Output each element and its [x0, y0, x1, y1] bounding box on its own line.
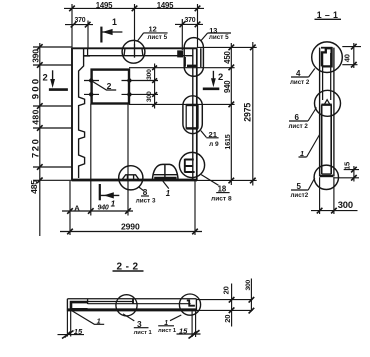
- dim 15: lines, ticks: [333, 166, 359, 182]
- underline 3: [134, 327, 149, 329]
- embedded plate inside stadium 21: [186, 104, 198, 106]
- right end extension lines: [196, 300, 252, 311]
- svg-text:1: 1: [97, 317, 101, 326]
- underline 8: [141, 195, 149, 197]
- leader for opening label 2: [93, 82, 117, 91]
- top dim extension lines: [72, 4, 198, 48]
- svg-text:12: 12: [149, 25, 157, 34]
- svg-text:лист 3: лист 3: [136, 198, 156, 205]
- extension line opening bottom to right dims: [129, 103, 235, 105]
- svg-text:лист 2: лист 2: [290, 79, 310, 86]
- svg-text:лист 8: лист 8: [211, 195, 232, 202]
- svg-text:370: 370: [75, 17, 86, 24]
- section 1-1 body inner walls lower: [322, 105, 332, 174]
- panel outline: bottom edge: [72, 179, 198, 182]
- svg-text:900: 900: [30, 77, 41, 100]
- leader 1: [299, 135, 320, 158]
- right extension lines top and bottom: [197, 47, 257, 180]
- callout stadium 21 mid right edge: [183, 96, 202, 134]
- svg-text:1: 1: [300, 149, 304, 158]
- ticks A/940: [67, 208, 131, 214]
- svg-text:л 9: л 9: [209, 141, 219, 148]
- extension 370 left: [87, 21, 89, 49]
- right outer dim line 2975: [252, 42, 254, 186]
- section 2-2 inner line lower: [88, 303, 191, 305]
- svg-text:1 – 1: 1 – 1: [317, 10, 339, 20]
- dim 300 right line and ticks: [250, 279, 252, 312]
- panel outline: right edge outer: [196, 48, 198, 180]
- svg-text:40: 40: [343, 54, 352, 62]
- right dim line 450/940/1615: [230, 43, 232, 185]
- section 2-2 left channel detail: [71, 302, 88, 309]
- trapezoid detail inside circle 8: [122, 175, 139, 180]
- svg-text:лист 2: лист 2: [289, 123, 309, 130]
- svg-text:лист 1: лист 1: [158, 328, 177, 334]
- opening square 900x900: [92, 70, 129, 104]
- svg-text:лист2: лист2: [291, 192, 309, 199]
- dome detail on bottom edge: [152, 164, 178, 180]
- callout circle 18 bottom right corner: [179, 152, 204, 177]
- leader label 12: [137, 33, 167, 41]
- leader label 18: [201, 175, 218, 186]
- dim 300 bottom: extensions, line, ticks: [320, 177, 334, 214]
- extension line opening top to right dims: [129, 67, 235, 69]
- svg-text:лист 1: лист 1: [134, 330, 153, 336]
- section 2-2 left end vertical: [66, 299, 68, 311]
- svg-text:20: 20: [221, 286, 230, 294]
- section 2-2 right end vertical: [195, 299, 197, 312]
- svg-text:2990: 2990: [121, 222, 140, 232]
- extension right bottom corner down: [194, 181, 196, 235]
- bottom dim line A/940: [62, 210, 133, 212]
- panel outline: left edge inner profile with 3 keyway notches: [79, 48, 85, 178]
- ticks 370 right: [180, 22, 201, 28]
- bottom dim line 2990: [60, 231, 202, 233]
- panel outline: top edge inner: [84, 55, 193, 57]
- detail ticks inside circle 12: [124, 44, 143, 58]
- svg-text:6: 6: [295, 113, 300, 122]
- left 15 dim: extensions, line, ticks: [67, 311, 70, 337]
- section 1-1 body outer walls: [320, 48, 334, 177]
- section 1-1 middle callout circle 6: [315, 90, 341, 116]
- leader 3 лист 1: [123, 314, 134, 321]
- svg-text:300: 300: [146, 91, 153, 102]
- ticks 2990: [67, 229, 198, 235]
- section marker 1 top: bar and arrow: [100, 27, 102, 43]
- dim line 370 top-right: [175, 23, 203, 25]
- leader label 21: [201, 131, 207, 138]
- section 2-2 step at opening edge: [132, 299, 134, 304]
- svg-text:1495: 1495: [96, 1, 113, 10]
- leader 6 лист 2: [289, 108, 317, 122]
- dim 20/20 line and ticks: [231, 284, 233, 327]
- section 1-1 top cap: [321, 47, 332, 49]
- leader 4 лист 2: [291, 69, 315, 78]
- callout stadium 13 at top right corner: [184, 38, 203, 77]
- leader label 13: [201, 33, 231, 41]
- section marker 1 bottom: bar and arrow: [99, 184, 101, 200]
- section 1-1 body inner walls upper: [323, 53, 331, 100]
- section 1-1 bottom callout circle 5: [314, 165, 338, 189]
- section 2-2 callout circle right: [179, 294, 200, 315]
- section 2-2 title underline: [113, 270, 144, 272]
- svg-text:1615: 1615: [223, 134, 232, 149]
- panel outline: left edge outer: [71, 48, 73, 181]
- svg-text:A: A: [74, 204, 80, 213]
- svg-text:15: 15: [74, 327, 83, 336]
- svg-text:3: 3: [137, 319, 142, 329]
- panel top-left corner step: [84, 48, 90, 56]
- section marker 2 left: arrow and bar: [52, 70, 54, 79]
- underline 1 лист1: [158, 325, 174, 327]
- svg-text:1: 1: [111, 200, 116, 209]
- svg-text:20: 20: [223, 315, 232, 323]
- right dim ticks: [229, 45, 235, 184]
- svg-text:940: 940: [98, 205, 109, 212]
- extension panel left edge down: [69, 181, 71, 235]
- extension 370 right: [181, 19, 183, 50]
- dim line 300/300 right of opening: [154, 64, 156, 109]
- svg-text:2975: 2975: [243, 103, 253, 122]
- svg-text:370: 370: [185, 17, 196, 24]
- section 1-1 middle joint bar: [321, 104, 331, 106]
- callout circle 12 on top edge: [122, 40, 145, 63]
- extension opening edges down to bottom dims: [91, 104, 128, 216]
- svg-text:5: 5: [297, 182, 302, 191]
- svg-text:450: 450: [223, 51, 232, 64]
- svg-text:300: 300: [245, 279, 252, 290]
- svg-text:15: 15: [343, 161, 352, 170]
- section 1-1 title underline: [315, 18, 342, 20]
- section 1-1 top callout circle 4: [312, 42, 343, 73]
- top dim ticks: [69, 6, 200, 12]
- svg-text:300: 300: [338, 199, 353, 210]
- anchor dots on opening edges: [89, 78, 132, 96]
- anchor axis line y=94.4: [84, 93, 158, 95]
- corner detail inside stadium 13: [187, 65, 197, 67]
- svg-text:480: 480: [30, 109, 40, 125]
- leader label 1 near dome: [163, 181, 169, 189]
- leader label 8: [139, 187, 144, 191]
- svg-text:390: 390: [30, 49, 40, 63]
- underline 18: [216, 192, 229, 194]
- section 2-2 bar bottom thick line: [67, 308, 196, 311]
- svg-text:1: 1: [164, 320, 168, 327]
- svg-text:2: 2: [43, 71, 48, 82]
- svg-text:1: 1: [112, 17, 117, 27]
- svg-text:720: 720: [29, 138, 40, 158]
- underline 21: [206, 137, 218, 139]
- ticks 2975: [250, 45, 256, 184]
- leader 1 лист 1: [170, 315, 181, 321]
- top dim line 1495+1495: [64, 7, 204, 9]
- panel outline: top edge outer: [72, 47, 198, 49]
- section 2-2 right hook detail: [187, 301, 195, 306]
- svg-text:лист 5: лист 5: [147, 34, 167, 41]
- dim 40: lines, ticks: [342, 43, 361, 68]
- svg-text:15: 15: [179, 326, 188, 335]
- right 15 dim: extensions, line, ticks: [192, 311, 196, 337]
- svg-text:лист 5: лист 5: [209, 34, 229, 41]
- svg-text:2: 2: [107, 81, 112, 91]
- anchor axis line y=80.5: [84, 80, 158, 82]
- callout circle 8 on bottom edge: [119, 166, 143, 190]
- section 1-1 bottom cap: [320, 175, 334, 178]
- leader 5 лист 2: [291, 178, 315, 190]
- leader 1 left: [72, 311, 105, 325]
- left extension lines: [33, 47, 72, 180]
- ticks 300 dims: [152, 66, 157, 107]
- svg-text:485: 485: [29, 180, 39, 194]
- left dim ticks: [37, 44, 43, 183]
- section 1-1 top hook plate: [322, 48, 332, 66]
- section 2-2 bar top line: [67, 298, 196, 300]
- svg-text:1495: 1495: [157, 1, 174, 10]
- svg-text:300: 300: [146, 69, 153, 80]
- channel detail inside circle 18: [185, 159, 195, 173]
- embedded plate (black) in top edge: [177, 50, 183, 57]
- svg-text:2 - 2: 2 - 2: [116, 261, 138, 272]
- svg-text:2: 2: [218, 71, 223, 82]
- svg-text:940: 940: [223, 80, 232, 93]
- section 2-2 inner line upper: [88, 301, 133, 303]
- left dim line (390/900/480/720/485): [39, 43, 41, 236]
- svg-text:1: 1: [166, 189, 170, 198]
- panel outline: right edge inner: [192, 48, 194, 180]
- ticks 370 left: [71, 22, 91, 28]
- svg-text:4: 4: [296, 69, 301, 78]
- section 1-1 middle joint peak: [324, 100, 329, 105]
- section marker 2 right: arrow and bar: [212, 71, 214, 79]
- dim line 370 top-left: [65, 24, 93, 26]
- section 2-2 callout circle 3: [116, 295, 137, 316]
